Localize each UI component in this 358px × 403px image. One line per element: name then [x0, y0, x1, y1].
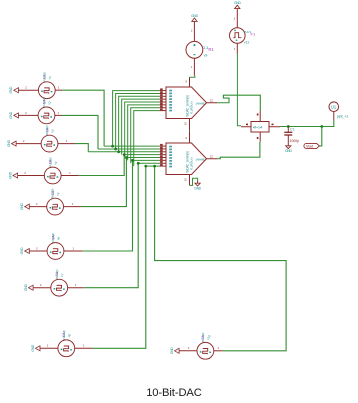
svg-text:•R≈C•4: •R≈C•4 — [253, 126, 263, 130]
svg-text:1: 1 — [234, 47, 236, 51]
bus lattice: block X1 input wires — [113, 91, 160, 167]
svg-text:GND: GND — [7, 139, 11, 146]
wire V9 pin2 to ground — [193, 21, 195, 41]
svg-text:PULSE(0: PULSE(0 — [55, 269, 59, 279]
voltage source V11 — [230, 28, 246, 44]
svg-text:PULSE(0: PULSE(0 — [51, 232, 55, 242]
node junction to C1 — [287, 125, 290, 128]
svg-text:2: 2 — [47, 344, 49, 348]
wire jog V9 to opamp pin9 — [190, 76, 195, 78]
svg-text:F1: F1 — [251, 32, 256, 37]
wire V11 pin1 down — [236, 43, 238, 53]
wire gnd stub — [197, 181, 199, 183]
probe U1 — [329, 102, 339, 112]
svg-text:v2: v2 — [47, 100, 52, 105]
pin left of R2 — [241, 126, 251, 128]
voltage source V1 — [38, 82, 55, 99]
capacitor C1 — [284, 132, 292, 135]
pin digits of R2 — [246, 124, 248, 126]
node junction to Vout — [320, 125, 323, 128]
ground of block X2 pin10 — [194, 183, 201, 190]
svg-text:1: 1 — [69, 171, 71, 175]
svg-text:1: 1 — [72, 202, 74, 206]
wire C1 to ground — [287, 135, 289, 145]
wire pin2 of V2 — [18, 114, 38, 116]
voltage source V2 — [38, 107, 55, 124]
wire pin2 of V1 — [18, 89, 38, 91]
wire to capacitor C1 — [287, 127, 289, 132]
op-amp summing block X1 — [166, 87, 207, 119]
svg-text:2: 2 — [36, 202, 38, 206]
svg-text:U1: U1 — [331, 104, 337, 109]
ground of V6 — [20, 247, 29, 254]
svg-text:≥NAME: ≥NAME — [196, 102, 205, 106]
wire pin1 of V4 — [61, 175, 79, 177]
svg-text:R_2R(1k,I+): R_2R(1k,I+) — [189, 157, 193, 170]
svg-text:v9: v9 — [204, 53, 208, 57]
svg-text:v4: v4 — [53, 160, 58, 165]
wire pin2 of V8 — [40, 347, 58, 349]
svg-text:12: 12 — [210, 99, 214, 103]
svg-text:9: 9 — [185, 136, 187, 140]
wire V8 riser to row8 — [93, 166, 146, 348]
wire pin1 of V10 — [214, 350, 223, 352]
wire V6 riser to row6 — [83, 160, 133, 251]
resistor network R2 — [251, 122, 269, 133]
svg-text:1000p: 1000p — [290, 139, 300, 143]
ground of V3 — [7, 139, 16, 146]
junction dots on lattice — [111, 145, 156, 168]
wire between block1 pin10 and block2 pin9 — [189, 130, 191, 131]
voltage source V5 — [47, 198, 64, 215]
svg-text:GND: GND — [191, 14, 198, 18]
DC source V9 — [186, 41, 203, 58]
wire V1 to row1 — [62, 90, 104, 146]
svg-text:1: 1 — [58, 86, 60, 90]
pin 12 output of block X1 — [207, 102, 218, 104]
input pins 1-8 of block X2 — [159, 144, 166, 166]
svg-text:10: 10 — [184, 122, 188, 126]
svg-text:GND: GND — [194, 187, 201, 191]
wire pin2 of V6 — [29, 250, 47, 252]
value/name labels of V4 — [48, 157, 58, 167]
value/name labels of V6 — [51, 232, 61, 242]
pin 12 output of block X2 — [207, 158, 218, 160]
svg-text:1: 1 — [75, 283, 77, 287]
svg-text:12: 12 — [210, 155, 214, 159]
svg-text:p(ot_+1: p(ot_+1 — [337, 114, 348, 118]
wire pin1 of V2 — [55, 114, 62, 116]
svg-text:GND: GND — [9, 111, 13, 118]
svg-text:1: 1 — [217, 346, 219, 350]
voltage source V3 — [41, 135, 58, 152]
wire pin2 of V3 — [16, 143, 41, 145]
wire V7 riser to row7 — [84, 163, 139, 287]
pin bottom of R2 — [259, 132, 261, 142]
wire pin1 of V5 — [64, 206, 82, 208]
svg-text:PULSE(0: PULSE(0 — [45, 125, 49, 135]
value/name labels of V8 — [62, 330, 72, 340]
input pins 1-8 of block X1 — [159, 88, 166, 110]
svg-text:PULSE(0: PULSE(0 — [42, 97, 46, 107]
op-amp summing block X2 — [166, 143, 207, 175]
wire output net — [280, 121, 334, 127]
ground of V4 — [8, 171, 17, 178]
svg-text:2: 2 — [191, 29, 193, 33]
svg-text:PULSE(0: PULSE(0 — [51, 188, 55, 198]
svg-text:2: 2 — [23, 139, 25, 143]
svg-text:GND: GND — [31, 344, 35, 351]
wire block X2 pin10 to ground — [190, 178, 198, 185]
ground of V8 — [31, 344, 40, 351]
svg-text:PULSE(0: PULSE(0 — [42, 72, 46, 82]
voltage source V6 — [47, 243, 64, 260]
wire block X2 output to divider bottom — [217, 142, 260, 159]
wire V10 loop riser to row8 — [155, 166, 287, 351]
wire pin1 of V1 — [55, 89, 62, 91]
svg-text:v8: v8 — [67, 333, 72, 338]
voltage source V10 — [197, 342, 214, 359]
value/name labels of V2 — [42, 97, 52, 107]
pin top of R2 — [259, 111, 261, 122]
svg-text:v7: v7 — [60, 273, 65, 278]
ground of V11 — [234, 1, 241, 9]
value/name labels of V7 — [55, 269, 65, 279]
probe U1 stub — [333, 112, 335, 121]
wire pin2 of V5 — [29, 206, 46, 208]
wire V2 to row2 — [62, 115, 99, 149]
wire pin2 of V4 — [18, 175, 45, 177]
svg-text:PULSE(0: PULSE(0 — [48, 157, 52, 167]
svg-text:GND: GND — [24, 284, 28, 291]
svg-text:2: 2 — [36, 246, 38, 250]
svg-text:GND: GND — [8, 171, 12, 178]
svg-text:1: 1 — [72, 246, 74, 250]
svg-text:1: 1 — [191, 65, 193, 69]
wire V11 pin2 to ground — [236, 9, 238, 28]
svg-text:PULSE(0: PULSE(0 — [62, 330, 66, 340]
wire V4 riser to row4 — [79, 155, 125, 176]
voltage source V8 — [58, 340, 75, 357]
svg-text:10: 10 — [184, 178, 188, 182]
svg-text:10-Bit-DAC: 10-Bit-DAC — [146, 387, 202, 399]
ground of V1 — [9, 86, 18, 93]
svg-text:9: 9 — [185, 80, 187, 84]
voltage source V4 — [44, 167, 61, 184]
pin 10 of block X2 — [189, 175, 191, 186]
block X2 input row wires — [88, 146, 159, 166]
wire V9 pin1 down — [193, 58, 195, 76]
svg-text:C1: C1 — [290, 128, 294, 132]
svg-text:2: 2 — [40, 283, 42, 287]
svg-text:2: 2 — [25, 86, 27, 90]
svg-text:GND: GND — [170, 347, 174, 354]
wire pin2 of V7 — [33, 287, 51, 289]
wire V11 output down to divider R — [237, 54, 241, 126]
wire V3 to row3 — [76, 144, 89, 152]
wire pin1 of V3 — [58, 143, 76, 145]
svg-text:1: 1 — [57, 111, 59, 115]
wire pin1 of V6 — [64, 250, 83, 252]
wire pin1 of V8 — [75, 347, 93, 349]
value/name labels of V1 — [42, 72, 52, 82]
wire pin1 of V7 — [68, 287, 84, 289]
svg-text:v6: v6 — [56, 236, 61, 241]
ground of V7 — [24, 284, 33, 291]
net label Vout — [304, 143, 320, 148]
svg-text:2: 2 — [188, 346, 190, 350]
svg-text:GND: GND — [9, 86, 13, 93]
ground of C1 — [285, 146, 292, 153]
svg-text:R1: R1 — [208, 47, 214, 52]
svg-text:v5: v5 — [56, 192, 61, 197]
wire V5 riser to row5 — [81, 158, 126, 207]
svg-text:GND: GND — [20, 202, 24, 209]
svg-text:Vout: Vout — [306, 144, 314, 149]
svg-text:PULSE(0: PULSE(0 — [201, 332, 205, 342]
svg-text:≥NAME: ≥NAME — [196, 158, 205, 162]
svg-text:v11: v11 — [244, 41, 250, 45]
svg-text:GND: GND — [285, 149, 292, 153]
ground of V5 — [20, 202, 29, 209]
svg-text:R_2R(1k,I+): R_2R(1k,I+) — [189, 101, 193, 114]
ground of V2 — [9, 111, 18, 118]
svg-text:2: 2 — [24, 171, 26, 175]
pin 10 of block X1 — [189, 119, 191, 131]
svg-text:v1: v1 — [47, 75, 52, 80]
svg-text:2: 2 — [25, 111, 27, 115]
ground of V9 — [191, 14, 198, 22]
value/name labels of V3 — [45, 125, 55, 135]
svg-text:2: 2 — [234, 17, 236, 21]
svg-text:GND: GND — [234, 1, 241, 5]
svg-text:GND: GND — [20, 247, 24, 254]
wire to Vout label — [319, 127, 321, 146]
svg-text:v3: v3 — [50, 129, 55, 134]
value/name labels of V10 — [201, 332, 212, 342]
pin right of R2 — [269, 126, 280, 128]
pin 9 of block X2 — [189, 132, 191, 144]
ground of V10 — [170, 347, 179, 354]
svg-text:v10: v10 — [206, 334, 212, 341]
pin 9 of block X1 — [189, 77, 191, 87]
value/name labels of V5 — [51, 188, 61, 198]
voltage source V7 — [51, 279, 68, 296]
svg-text:1: 1 — [66, 139, 68, 143]
wire block X1 output to divider top — [217, 95, 260, 110]
svg-text:1: 1 — [83, 344, 85, 348]
wire pin2 of V10 — [179, 350, 197, 352]
